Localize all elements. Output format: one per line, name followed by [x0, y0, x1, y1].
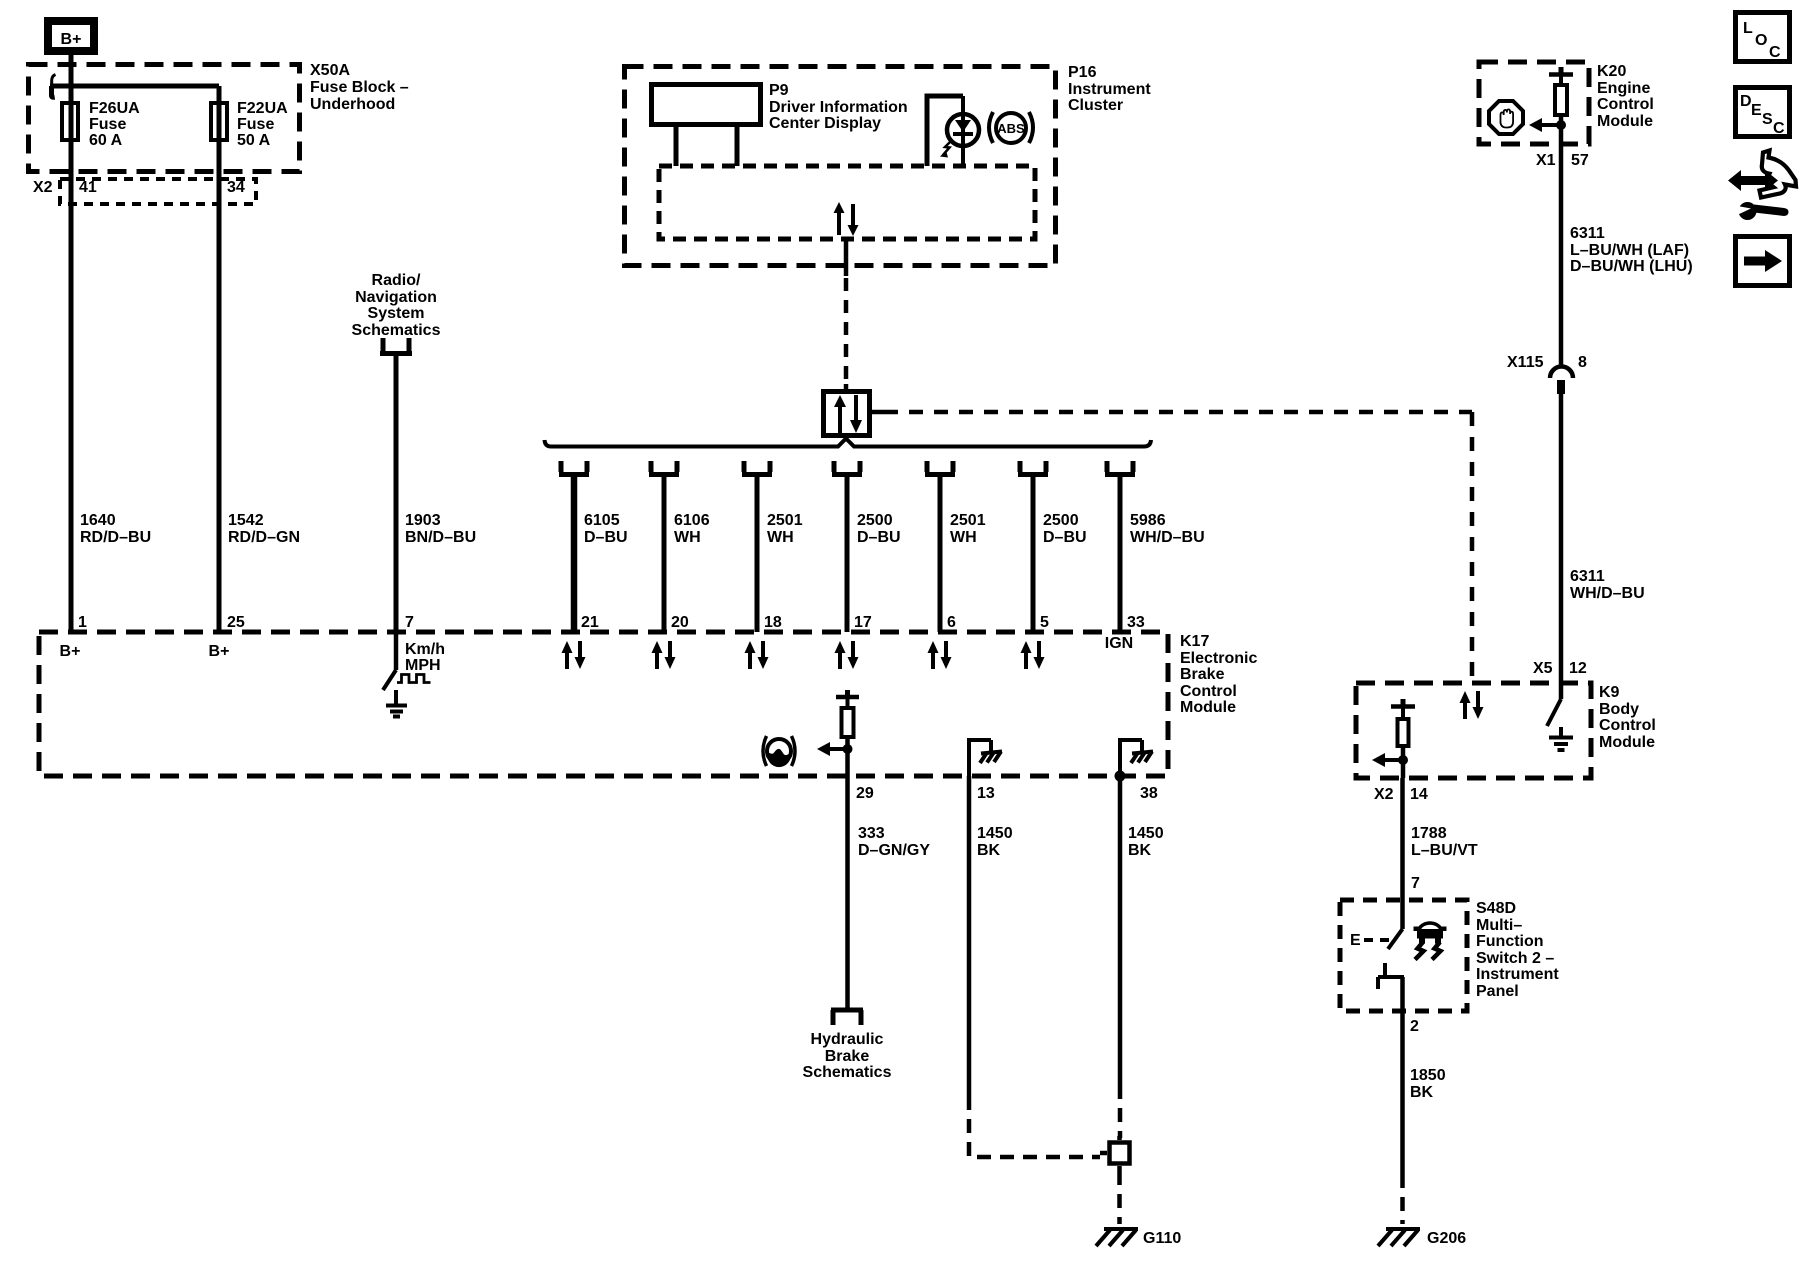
svg-text:Multi–: Multi–: [1476, 917, 1522, 934]
legend icon forward arrow: [1736, 237, 1790, 286]
svg-text:WH/D–BU: WH/D–BU: [1130, 529, 1205, 546]
serial data arrows inside cluster: [834, 202, 859, 236]
svg-text:X50A: X50A: [310, 62, 350, 79]
svg-text:Fuse Block –: Fuse Block –: [310, 79, 409, 96]
cluster internal dashed box: [659, 166, 1035, 239]
Km/h MPH selector switch: [394, 632, 399, 670]
svg-text:25: 25: [227, 614, 245, 631]
label X50A Fuse Block Underhood: [310, 62, 409, 113]
svg-text:6: 6: [947, 614, 956, 631]
svg-text:D–BU/WH (LHU): D–BU/WH (LHU): [1570, 258, 1693, 275]
svg-text:BN/D–BU: BN/D–BU: [405, 529, 476, 546]
ABS indicator (ABS): [989, 112, 1033, 143]
serial arrows pin 5: [1021, 641, 1045, 669]
wire 1850 BK: [1410, 1067, 1446, 1101]
wire P9 right leg: [735, 127, 740, 166]
off-page connector pin 5: [1018, 461, 1048, 475]
svg-text:12: 12: [1569, 660, 1587, 677]
svg-text:D–BU: D–BU: [1043, 529, 1087, 546]
svg-text:6311: 6311: [1570, 225, 1605, 242]
svg-text:1788: 1788: [1411, 825, 1447, 842]
svg-text:5986: 5986: [1130, 512, 1166, 529]
wire through pin 2: [1400, 977, 1405, 1174]
svg-text:Control: Control: [1180, 683, 1237, 700]
svg-text:1850: 1850: [1410, 1067, 1446, 1084]
svg-text:Cluster: Cluster: [1068, 97, 1123, 114]
ground G110: [1096, 1229, 1138, 1246]
display P9 rectangle: [652, 85, 761, 125]
svg-text:S: S: [1762, 111, 1773, 128]
wire stub right of bus symbol: [872, 410, 884, 415]
svg-text:29: 29: [856, 785, 874, 802]
octagon hand symbol in K20: [1489, 101, 1523, 134]
svg-text:X1: X1: [1536, 152, 1556, 169]
svg-text:Underhood: Underhood: [310, 96, 395, 113]
off-page connector pin 33: [1105, 461, 1135, 475]
brake warning indicator symbol: [763, 736, 795, 767]
svg-text:BK: BK: [1410, 1084, 1434, 1101]
svg-text:D–GN/GY: D–GN/GY: [858, 842, 930, 859]
svg-text:8: 8: [1578, 354, 1587, 371]
svg-text:60 A: 60 A: [89, 132, 123, 149]
svg-text:Center Display: Center Display: [769, 115, 881, 132]
svg-text:IGN: IGN: [1105, 635, 1133, 652]
svg-text:57: 57: [1571, 152, 1589, 169]
svg-text:6311: 6311: [1570, 568, 1605, 585]
svg-text:333: 333: [858, 825, 885, 842]
serial arrows pin 18: [745, 641, 769, 669]
svg-text:Schematics: Schematics: [352, 322, 441, 339]
ground G206: [1378, 1229, 1420, 1246]
svg-text:Control: Control: [1597, 96, 1654, 113]
svg-text:RD/D–BU: RD/D–BU: [80, 529, 151, 546]
svg-text:System: System: [368, 305, 425, 322]
wire 6106 WH: [662, 477, 667, 632]
svg-text:RD/D–GN: RD/D–GN: [228, 529, 300, 546]
wire 6311 WH/D-BU lower: [1559, 394, 1564, 683]
svg-text:1450: 1450: [1128, 825, 1164, 842]
svg-text:Module: Module: [1599, 734, 1655, 751]
legend icon DESC: [1736, 88, 1790, 138]
svg-text:L–BU/VT: L–BU/VT: [1411, 842, 1478, 859]
off-page connector pin 17: [832, 461, 862, 475]
svg-text:K17: K17: [1180, 633, 1209, 650]
wire horizontal feed to F22UA: [50, 84, 219, 89]
svg-text:L: L: [1743, 20, 1753, 37]
svg-text:L–BU/WH (LAF): L–BU/WH (LAF): [1570, 242, 1689, 259]
svg-text:G206: G206: [1427, 1230, 1466, 1247]
svg-text:14: 14: [1410, 786, 1428, 803]
svg-text:B+: B+: [209, 643, 230, 660]
svg-text:20: 20: [671, 614, 689, 631]
svg-text:D–BU: D–BU: [584, 529, 628, 546]
ground inside K17: [386, 690, 407, 717]
svg-text:6106: 6106: [674, 512, 710, 529]
svg-text:WH: WH: [950, 529, 977, 546]
wire P9 left leg: [674, 127, 679, 166]
svg-text:33: 33: [1127, 614, 1145, 631]
module K17 Electronic Brake Control Module dashed box: [39, 632, 1168, 776]
brake warning LED lamp: [947, 96, 979, 166]
dashed serial data link down to bus symbol: [844, 278, 849, 384]
indicator lamp bracket wire: [927, 96, 963, 166]
dashed serial data link to K9 vertical: [1470, 412, 1475, 683]
off-page connector Radio/Navigation: [352, 272, 441, 339]
svg-text:Body: Body: [1599, 701, 1639, 718]
svg-text:50 A: 50 A: [237, 132, 271, 149]
fuse F26UA 60A: [62, 103, 78, 140]
serial arrows in K9: [1460, 691, 1484, 719]
lamp driver component in K9: [1372, 699, 1415, 778]
instrument cluster P16 dashed box: [625, 67, 1056, 266]
fuse block X50A dashed box: [29, 65, 300, 172]
svg-text:E: E: [1350, 932, 1361, 949]
off-page connector pin 21: [559, 461, 589, 475]
wire 1903 BN/D-BU: [394, 356, 399, 632]
switch S48D dashed box: [1340, 900, 1467, 1011]
label K17 Electronic Brake Control Module: [1180, 633, 1257, 716]
wire hook tap at fuse block feed: [52, 75, 56, 86]
svg-text:MPH: MPH: [405, 657, 441, 674]
off-page connector pin 18: [742, 461, 772, 475]
battery feed component in K20: [1529, 67, 1573, 144]
svg-text:41: 41: [79, 179, 97, 196]
serial arrows pin 20: [652, 641, 676, 669]
ground lead pin 38 inside K17: [1120, 738, 1153, 776]
svg-text:C: C: [1769, 44, 1781, 61]
svg-text:18: 18: [764, 614, 782, 631]
svg-text:P16: P16: [1068, 64, 1097, 81]
svg-text:BK: BK: [1128, 842, 1152, 859]
dashed link E to blade: [1364, 938, 1392, 942]
switch blade in S48D: [1400, 900, 1405, 929]
svg-text:C: C: [1773, 120, 1785, 137]
svg-text:P9: P9: [769, 82, 789, 99]
wire 6311 upper: [1559, 144, 1564, 366]
svg-text:O: O: [1755, 32, 1767, 49]
label P9 Driver Information Center Display: [769, 82, 908, 132]
svg-text:X2: X2: [33, 179, 53, 196]
serial data bus symbol box: [844, 384, 849, 391]
svg-text:Panel: Panel: [1476, 983, 1519, 1000]
square wave signal glyph: [397, 675, 431, 683]
svg-text:Instrument: Instrument: [1476, 966, 1559, 983]
svg-text:2500: 2500: [857, 512, 893, 529]
svg-text:BK: BK: [977, 842, 1001, 859]
svg-text:X115: X115: [1507, 354, 1544, 371]
svg-text:2500: 2500: [1043, 512, 1079, 529]
legend icon data exchange with wrench: [1728, 151, 1796, 221]
svg-text:G110: G110: [1143, 1230, 1181, 1247]
svg-text:Schematics: Schematics: [803, 1064, 892, 1081]
svg-text:K9: K9: [1599, 684, 1620, 701]
off-page connector pin 20: [649, 461, 679, 475]
svg-text:WH: WH: [767, 529, 794, 546]
brake warning driver component in K17: [817, 690, 859, 776]
svg-text:38: 38: [1140, 785, 1158, 802]
bus grouping brace: [545, 439, 1152, 447]
svg-text:Function: Function: [1476, 933, 1544, 950]
svg-text:X5: X5: [1533, 660, 1553, 677]
wire 333 D-GN/GY: [845, 776, 850, 1008]
svg-text:7: 7: [405, 614, 414, 631]
dashed wire 1450 to splice: [969, 1096, 1100, 1157]
svg-text:2501: 2501: [767, 512, 803, 529]
dashed serial data link to K9 horizontal: [884, 410, 1472, 415]
serial arrows pin 21: [562, 641, 586, 669]
wire 5986 WH/D-BU: [1118, 477, 1123, 632]
fuse F22UA 50A: [211, 103, 227, 140]
label P16 Instrument Cluster: [1068, 64, 1151, 114]
wire 1542 RD/D-GN vertical: [217, 86, 222, 632]
svg-text:ABS: ABS: [997, 121, 1025, 136]
wire 1788 L-BU/VT: [1400, 778, 1405, 900]
label K20 Engine Control Module: [1597, 63, 1654, 130]
svg-text:2501: 2501: [950, 512, 986, 529]
lamp lightning arrow: [943, 141, 951, 155]
svg-text:Module: Module: [1180, 699, 1236, 716]
module K20 Engine Control Module dashed box: [1479, 62, 1589, 144]
junction dot wire 38: [1115, 771, 1126, 782]
wire 2500 D-BU b: [1031, 477, 1036, 632]
switch to ground in K9: [1559, 683, 1564, 699]
traction control car icon: [1414, 923, 1447, 960]
power symbol B+: [48, 21, 94, 51]
svg-text:6105: 6105: [584, 512, 620, 529]
wire 6105 D-BU: [571, 477, 578, 632]
svg-text:34: 34: [227, 179, 245, 196]
svg-text:Brake: Brake: [1180, 666, 1225, 683]
label wire 1542 RD/D-GN: [228, 512, 300, 546]
wire 2501 WH b: [938, 477, 943, 632]
off-page connector pin 6: [925, 461, 955, 475]
svg-text:D–BU: D–BU: [857, 529, 901, 546]
ground lead pin 13 inside K17: [969, 738, 1002, 776]
svg-text:5: 5: [1040, 614, 1049, 631]
dashed wire to G206: [1400, 1174, 1405, 1224]
svg-text:2: 2: [1410, 1018, 1419, 1035]
svg-text:WH: WH: [674, 529, 701, 546]
switch fixed contact: [1378, 963, 1404, 989]
legend icon LOC: [1736, 13, 1790, 62]
svg-text:Driver Information: Driver Information: [769, 99, 908, 116]
wire B+ feed vertical (circuit 1640): [69, 55, 74, 632]
svg-text:1640: 1640: [80, 512, 116, 529]
svg-text:F26UA: F26UA: [89, 100, 140, 117]
svg-text:Navigation: Navigation: [355, 289, 437, 306]
wire 1450 BK (13): [967, 776, 972, 1096]
svg-text:Fuse: Fuse: [237, 116, 274, 133]
svg-text:Switch 2 –: Switch 2 –: [1476, 950, 1554, 967]
svg-text:Instrument: Instrument: [1068, 81, 1151, 98]
wire 2501 WH: [755, 477, 760, 632]
svg-text:S48D: S48D: [1476, 900, 1516, 917]
svg-text:E: E: [1751, 102, 1762, 119]
label S48D Multi-Function Switch 2 Instrument Panel: [1476, 900, 1559, 1000]
svg-text:13: 13: [977, 785, 995, 802]
svg-text:Hydraulic: Hydraulic: [811, 1031, 884, 1048]
svg-text:Electronic: Electronic: [1180, 650, 1257, 667]
svg-text:Fuse: Fuse: [89, 116, 126, 133]
dashed wire splice to G110: [1117, 1171, 1122, 1224]
wire serial data stub below cluster: [844, 239, 849, 276]
svg-text:Radio/: Radio/: [372, 272, 421, 289]
wire 2500 D-BU: [845, 477, 850, 632]
svg-text:Module: Module: [1597, 113, 1653, 130]
connector X2 of fuse block dashed box: [60, 179, 256, 204]
ground in K9: [1549, 727, 1573, 750]
wire 1450 BK (38): [1118, 776, 1123, 1085]
svg-text:7: 7: [1411, 875, 1420, 892]
svg-text:K20: K20: [1597, 63, 1626, 80]
serial arrows pin 17: [835, 641, 859, 669]
dashed wire 38 to splice: [1118, 1085, 1123, 1138]
svg-text:F22UA: F22UA: [237, 100, 288, 117]
serial arrows pin 6: [928, 641, 952, 669]
module K9 Body Control Module dashed box: [1356, 683, 1591, 778]
svg-text:1450: 1450: [977, 825, 1013, 842]
off-page connector Hydraulic Brake: [831, 1010, 863, 1025]
svg-text:Km/h: Km/h: [405, 641, 445, 658]
svg-text:B+: B+: [60, 643, 81, 660]
svg-text:WH/D–BU: WH/D–BU: [1570, 585, 1645, 602]
label K9 Body Control Module: [1599, 684, 1656, 751]
svg-text:Engine: Engine: [1597, 80, 1650, 97]
label wire 1640 RD/D-BU: [80, 512, 151, 546]
svg-text:Control: Control: [1599, 717, 1656, 734]
svg-text:17: 17: [854, 614, 872, 631]
svg-text:D: D: [1740, 93, 1752, 110]
svg-text:X2: X2: [1374, 786, 1394, 803]
svg-text:Brake: Brake: [825, 1048, 870, 1065]
svg-text:1903: 1903: [405, 512, 441, 529]
svg-text:21: 21: [581, 614, 599, 631]
splice block: [1100, 1136, 1130, 1171]
svg-text:1542: 1542: [228, 512, 264, 529]
svg-text:B+: B+: [61, 31, 82, 48]
svg-text:1: 1: [78, 614, 87, 631]
